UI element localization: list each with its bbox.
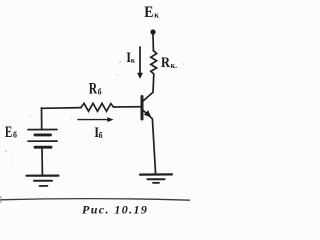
wire (battery bottom to ground): [41, 147, 43, 175]
svg-text:Рис. 10.19: Рис. 10.19: [82, 203, 148, 217]
label Iб: [94, 125, 102, 141]
wire (Rк bottom to collector): [152, 74, 155, 92]
svg-text:R: R: [89, 81, 98, 98]
svg-text:E: E: [5, 124, 12, 141]
wire (emitter down to ground): [152, 119, 155, 174]
svg-text:к: к: [131, 56, 136, 65]
figure frame bottom rule: [0, 199, 190, 201]
current arrow Iк: [137, 47, 143, 79]
label Iк: [126, 50, 136, 66]
wire (junction down to battery): [41, 108, 43, 129]
svg-text:б: б: [98, 88, 102, 97]
current arrow Iб: [78, 117, 114, 122]
wire (battery top to Rб): [42, 107, 82, 110]
svg-text:к: к: [154, 11, 159, 20]
figure frame left tick: [0, 196, 2, 203]
svg-text:б: б: [99, 131, 103, 140]
svg-text:б: б: [13, 131, 17, 140]
label Eб: [5, 124, 17, 141]
ground (battery): [27, 176, 59, 186]
label Rб: [89, 81, 102, 98]
label Eк: [144, 4, 159, 21]
svg-text:E: E: [144, 4, 153, 21]
resistor Rк: [151, 51, 157, 75]
transistor (NPN): [142, 92, 153, 119]
ground (emitter): [140, 174, 172, 183]
label Rк: [161, 55, 177, 71]
svg-text:R: R: [161, 55, 170, 71]
wire (Rб to base): [114, 106, 141, 108]
svg-text:к.: к.: [171, 61, 178, 70]
resistor Rб: [81, 103, 114, 111]
node Eк (supply terminal dot): [150, 29, 155, 34]
wire (Eк node to Rк top): [152, 35, 154, 52]
battery Eб: [28, 130, 57, 148]
